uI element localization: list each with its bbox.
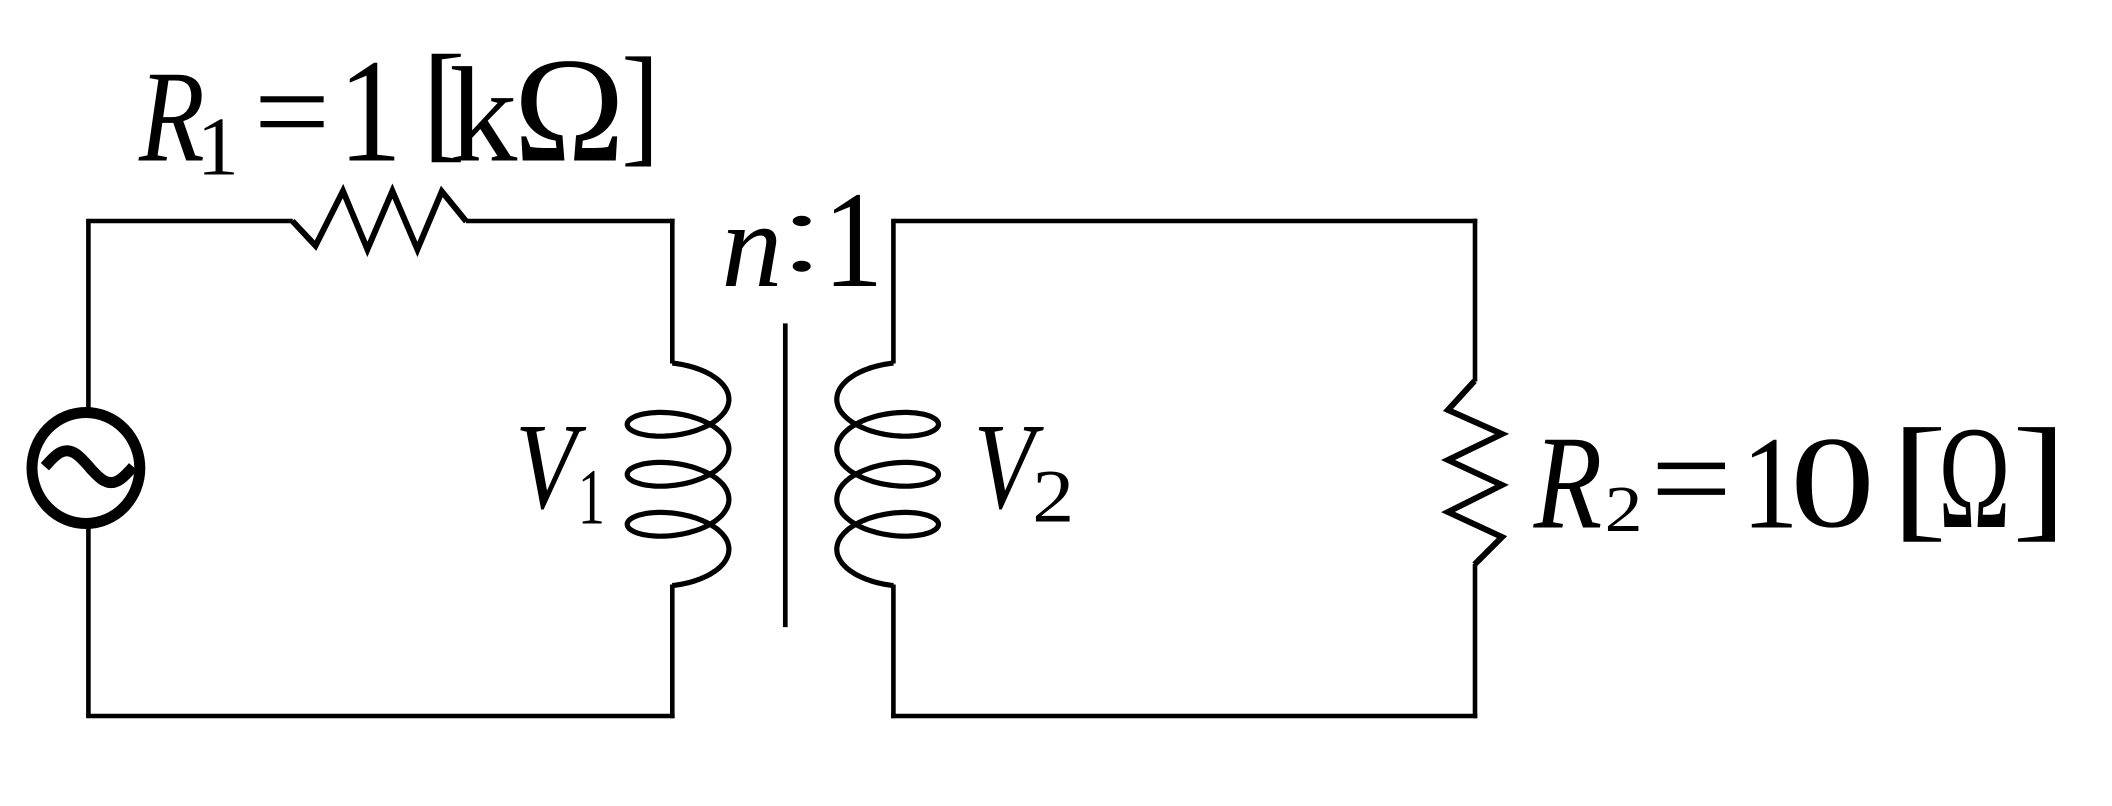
svg-text:n: n bbox=[721, 178, 782, 313]
svg-text:1: 1 bbox=[338, 29, 402, 193]
wire right upper lead bbox=[1473, 219, 1478, 382]
wire top-right (secondary to R2) bbox=[893, 219, 1477, 224]
svg-text:1: 1 bbox=[197, 101, 239, 194]
transformer ratio label: colon upper dot bbox=[793, 216, 811, 226]
wire left (source branch) bbox=[86, 221, 91, 716]
resistor R2 bbox=[1448, 381, 1502, 565]
svg-text:]: ] bbox=[2012, 401, 2067, 554]
wire secondary bottom lead bbox=[891, 585, 896, 719]
svg-text:]: ] bbox=[621, 30, 659, 177]
wire secondary top lead bbox=[891, 219, 896, 364]
wire bottom-right bbox=[891, 714, 1477, 719]
wire bottom-left bbox=[86, 714, 675, 719]
wire primary top lead bbox=[670, 219, 675, 364]
svg-text:V: V bbox=[515, 399, 587, 535]
transformer ratio label: colon lower dot bbox=[793, 261, 811, 272]
svg-text:k: k bbox=[449, 41, 517, 191]
AC source sine symbol bbox=[45, 451, 133, 483]
wire top-left (source to R1) bbox=[86, 219, 293, 224]
inductor primary winding bbox=[627, 363, 729, 586]
svg-text:R: R bbox=[1533, 408, 1603, 556]
AC source circle bbox=[32, 413, 140, 524]
svg-text:Ω: Ω bbox=[1938, 396, 2010, 559]
transformer core bbox=[783, 323, 788, 627]
wire right lower lead bbox=[1473, 564, 1478, 718]
svg-text:Ω: Ω bbox=[514, 28, 625, 194]
resistor R1 bbox=[292, 191, 466, 249]
svg-text:1: 1 bbox=[578, 453, 605, 540]
wire primary bottom lead bbox=[670, 585, 675, 719]
svg-text:1: 1 bbox=[823, 163, 883, 316]
svg-text:2: 2 bbox=[1605, 473, 1643, 545]
svg-text:0: 0 bbox=[1790, 410, 1875, 555]
svg-text:=: = bbox=[254, 43, 331, 180]
svg-text:=: = bbox=[1651, 407, 1732, 550]
wire top-mid (R1 to transformer primary) bbox=[466, 219, 675, 224]
svg-text:R: R bbox=[138, 44, 205, 189]
svg-text:2: 2 bbox=[1032, 455, 1074, 538]
inductor secondary winding bbox=[837, 363, 939, 586]
